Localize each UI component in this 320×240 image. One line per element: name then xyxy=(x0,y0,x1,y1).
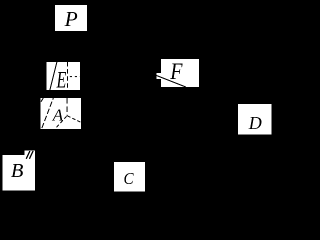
vertical dashed height line through E box xyxy=(67,62,69,90)
svg-text:P: P xyxy=(64,7,78,31)
label box A xyxy=(41,98,82,129)
steep dashed edge in A box xyxy=(41,95,54,130)
steep mark 1 at B box top-right xyxy=(26,151,30,159)
edge PD solid through F box xyxy=(157,76,186,88)
svg-text:E: E xyxy=(56,68,67,93)
edge PB solid through E box xyxy=(49,60,58,96)
label box C xyxy=(114,162,145,192)
svg-text:D: D xyxy=(248,113,262,133)
label box B xyxy=(3,155,36,191)
dashed segment down-right from foot O in A box xyxy=(67,116,81,123)
vertical dashed height line through A box xyxy=(66,98,68,116)
label box E xyxy=(47,62,81,90)
label box F xyxy=(161,59,199,87)
svg-text:A: A xyxy=(52,106,64,125)
label box F jut xyxy=(156,73,161,79)
dashed segment down-left from foot O in A box xyxy=(55,116,67,129)
corner dash at A box top-left xyxy=(41,98,43,102)
label box D xyxy=(238,104,272,135)
horizontal dashed EF segment in E box xyxy=(70,76,80,78)
svg-text:F: F xyxy=(169,59,183,85)
label box P xyxy=(55,5,87,31)
svg-text:C: C xyxy=(123,169,133,188)
steep mark 2 at B box top-right xyxy=(29,151,33,159)
label box B tab xyxy=(25,151,36,156)
svg-text:B: B xyxy=(11,160,24,182)
